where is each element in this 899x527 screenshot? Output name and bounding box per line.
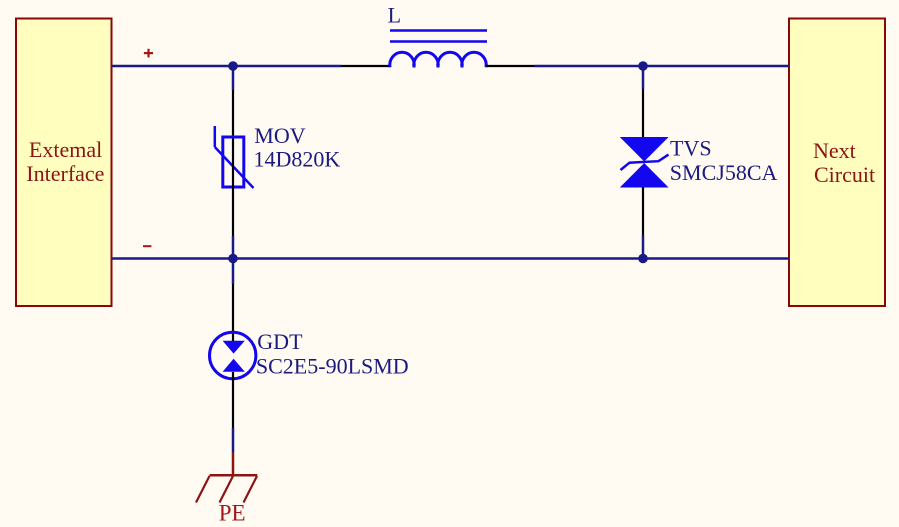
junction node bottom TVS [638,254,648,264]
wire GDT to PE [232,428,235,453]
label + [144,49,153,58]
gas discharge tube GDT SC2E5-90LSMD [210,332,256,378]
wire TVS top stub [642,66,645,89]
wire bottom segment [112,257,790,260]
svg-text:GDT: GDT [257,329,303,354]
wire GDT top stub [232,259,235,285]
wire MOV bottom stub [232,236,235,259]
inductor L [390,31,487,68]
MOV pin 2 [232,163,234,236]
GDT pin 1 [232,284,234,341]
svg-text:L: L [388,3,401,28]
GDT pin 2 [232,372,234,428]
varistor MOV 14D820K [215,126,254,188]
inductor L pin 1 [341,65,391,67]
wire MOV top stub [232,66,235,90]
svg-text:MOV: MOV [254,123,305,148]
TVS diode SMCJ58CA [620,137,669,188]
ground PE earth symbol [196,453,257,503]
external interface box [16,19,112,307]
junction node bottom GDT [228,254,238,264]
junction node top MOV [228,61,238,71]
TVS pin 2 [642,187,644,235]
svg-text:Interface: Interface [26,161,104,186]
junction node top TVS [638,61,648,71]
svg-text:Extemal: Extemal [29,137,102,162]
MOV pin 1 [232,90,234,163]
svg-text:SMCJ58CA: SMCJ58CA [670,160,778,185]
svg-text:Next: Next [813,138,856,163]
svg-text:TVS: TVS [670,136,712,161]
label − [143,245,151,247]
svg-text:PE: PE [219,501,246,526]
wire TVS bottom stub [642,235,645,259]
svg-text:Circuit: Circuit [814,162,875,187]
svg-text:14D820K: 14D820K [254,147,341,172]
wire top right segment [535,65,790,68]
inductor L pin 2 [486,65,535,67]
wire top left segment [112,65,342,68]
next circuit box [789,19,885,307]
TVS pin 1 [642,89,644,138]
svg-text:SC2E5-90LSMD: SC2E5-90LSMD [256,354,409,379]
